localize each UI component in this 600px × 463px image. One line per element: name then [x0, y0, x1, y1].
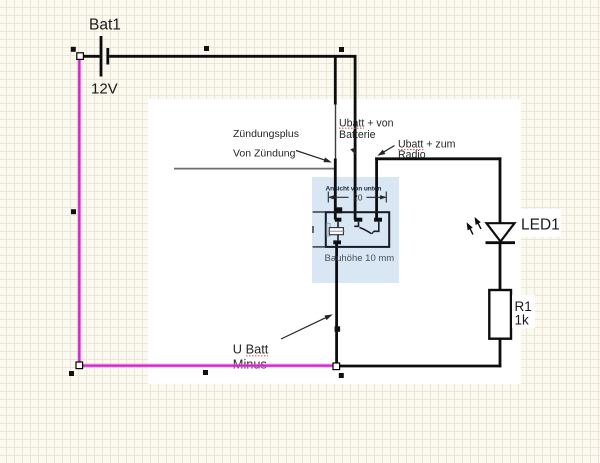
wire: branch A upper (to Zündungsplus)	[334, 55, 337, 105]
relay movable contact	[360, 228, 372, 234]
wire: LED cathode to R1	[499, 243, 502, 291]
wire: U batt minus bottom (magenta)	[77, 363, 334, 367]
relay contact from pin 3	[374, 222, 379, 232]
handle: black square magenta mid	[71, 209, 76, 214]
relay coil bracket (scan)	[327, 224, 330, 237]
svg-text:Von Zündung: Von Zündung	[233, 148, 296, 160]
wire: LED branch vertical down to LED anode	[499, 157, 502, 223]
handle: black square bottom left	[69, 371, 74, 376]
svg-text:Bat1: Bat1	[89, 17, 121, 34]
relay pin 2 pad	[354, 218, 362, 222]
wire: thin scan vertical segment (Zündungsplus net)	[335, 103, 337, 160]
handle: black square bottom right	[339, 373, 344, 378]
relay pin 3 pad	[374, 218, 382, 222]
svg-text:12V: 12V	[91, 81, 118, 98]
wire: bottom rail black	[337, 365, 502, 368]
svg-text:1k: 1k	[515, 313, 530, 328]
relay scan: dimension 20	[328, 192, 386, 203]
wire: branch B battery plus down to relay pin 2	[354, 55, 357, 220]
handle: black square relay pin 1	[336, 207, 342, 213]
annotation arrow to radio wire corner	[379, 146, 395, 155]
svg-text:20: 20	[353, 192, 363, 202]
annotation arrow to Zündungsplus wire	[296, 151, 330, 162]
relay coil symbol	[328, 222, 345, 241]
node: white handle battery minus	[77, 53, 84, 60]
annotation arrow to minus wire	[281, 315, 331, 339]
LED1 symbol	[486, 223, 516, 243]
relay scan image blue background	[312, 177, 399, 283]
handle: black square near battery	[71, 47, 76, 52]
relay contact from pin 2	[354, 222, 358, 227]
relay scan left edge lines	[313, 212, 326, 247]
wire: U batt minus vertical (magenta)	[77, 58, 81, 366]
wire: Ubatt to radio vertical at relay pin 3	[375, 157, 378, 219]
relay contact tick	[372, 231, 374, 234]
relay coil bottom pad	[333, 240, 341, 244]
wire: Ubatt to radio horizontal	[375, 157, 501, 160]
wire: relay coil pin down to bottom rail	[335, 244, 338, 367]
svg-text:Bauhöhe 10 mm: Bauhöhe 10 mm	[325, 253, 395, 264]
wire: battery plus top wire	[109, 55, 356, 58]
resistor R1 label background	[512, 295, 535, 328]
svg-text:Batterie: Batterie	[339, 129, 376, 141]
svg-text:Radio: Radio	[398, 149, 426, 161]
LED1 label white background	[517, 209, 561, 237]
handle: black square top wire mid	[204, 46, 209, 51]
resistor R1	[489, 290, 511, 339]
spellcheck underline Batt	[246, 355, 268, 357]
LED1 light arrows	[468, 219, 482, 235]
wire: Von Zündung (thin gray scan wire)	[174, 168, 335, 170]
spellcheck underline Ubatt von	[339, 127, 364, 129]
svg-text:Ubatt + von: Ubatt + von	[339, 117, 394, 129]
wire: R1 to bottom rail	[499, 339, 502, 368]
spellcheck underline Ubatt zum	[398, 149, 424, 151]
relay pin 1 pad	[335, 218, 342, 222]
scan panel (white schematic image background)	[148, 99, 521, 384]
svg-text:Zündungsplus: Zündungsplus	[233, 128, 299, 140]
handle: black square top wire right	[339, 47, 344, 52]
node: white handle bottom right corner	[333, 363, 340, 370]
svg-text:LED1: LED1	[521, 217, 560, 234]
annotation arrowhead on battery wire	[350, 148, 356, 155]
handle: black square coil wire	[335, 326, 341, 332]
relay body rectangle (scan)	[326, 212, 389, 247]
wire: battery left stub to node	[83, 55, 100, 58]
node: white handle bottom left corner	[76, 362, 83, 369]
svg-text:U Batt: U Batt	[233, 342, 269, 357]
wire: branch A lower into relay pin 1	[334, 159, 337, 220]
handle: black square bottom mid	[203, 370, 208, 375]
battery Bat1 symbol	[101, 36, 108, 77]
